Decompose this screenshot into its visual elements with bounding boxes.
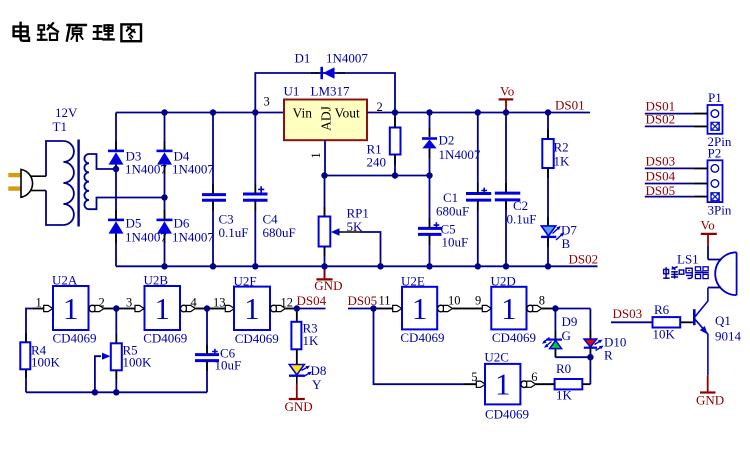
svg-text:CD4069: CD4069 bbox=[143, 331, 187, 346]
ground GND (below D8) bbox=[296, 376, 298, 384]
svg-text:8: 8 bbox=[539, 294, 545, 308]
resistor R2 bbox=[542, 113, 570, 227]
inverter U2D bbox=[482, 274, 541, 346]
wire secondary top lead bbox=[89, 154, 116, 169]
wire U2D out to LEDs bbox=[542, 308, 591, 310]
title char LU bbox=[38, 23, 58, 40]
node gate row junctions bbox=[113, 305, 119, 311]
svg-text:11: 11 bbox=[379, 294, 391, 308]
ground GND (emitter) bbox=[700, 375, 716, 392]
svg-text:B: B bbox=[562, 236, 571, 251]
title char TU bbox=[121, 24, 141, 41]
svg-text:DS01: DS01 bbox=[555, 98, 585, 113]
char MING bbox=[679, 268, 692, 278]
title char DIAN bbox=[14, 23, 29, 41]
svg-text:1K: 1K bbox=[556, 388, 573, 403]
capacitor C3 bbox=[202, 113, 248, 267]
diode D4 bbox=[157, 149, 215, 177]
svg-text:Q1: Q1 bbox=[715, 313, 731, 328]
LED D9 (green) bbox=[542, 309, 577, 358]
node LED cathode junction bbox=[587, 354, 593, 360]
svg-text:100K: 100K bbox=[123, 355, 153, 370]
svg-text:ADJ: ADJ bbox=[319, 106, 334, 131]
svg-text:12V: 12V bbox=[55, 105, 78, 120]
svg-text:D9: D9 bbox=[562, 314, 578, 329]
svg-text:D5: D5 bbox=[126, 216, 142, 231]
svg-text:1: 1 bbox=[36, 295, 42, 309]
wire oscillator bottom rail bbox=[26, 391, 207, 393]
svg-text:12: 12 bbox=[281, 295, 294, 309]
svg-text:D2: D2 bbox=[439, 133, 455, 148]
svg-text:LM317: LM317 bbox=[311, 84, 351, 99]
ground GND (below RP1) bbox=[316, 266, 332, 279]
transformer T1 bbox=[46, 140, 165, 227]
wire to P2 pin2 bbox=[645, 183, 708, 185]
svg-text:Vo: Vo bbox=[701, 218, 715, 233]
diode D6 bbox=[157, 216, 215, 245]
potentiometer RP1 bbox=[319, 176, 381, 267]
title char YUAN bbox=[67, 25, 86, 41]
svg-text:6: 6 bbox=[531, 370, 537, 384]
svg-text:1N4007: 1N4007 bbox=[172, 162, 214, 177]
svg-text:Vo: Vo bbox=[500, 84, 514, 99]
plug P (AC mains) bbox=[8, 169, 46, 197]
svg-text:10: 10 bbox=[448, 294, 461, 308]
wire secondary bottom lead bbox=[89, 198, 165, 210]
inverter U2A bbox=[44, 273, 104, 346]
capacitor C4 (polarized) bbox=[243, 113, 296, 267]
svg-text:R2: R2 bbox=[554, 140, 569, 155]
svg-text:DS03: DS03 bbox=[646, 154, 676, 169]
secondary winding bbox=[84, 154, 89, 209]
svg-text:CD4069: CD4069 bbox=[400, 330, 444, 345]
LED D10 (red) bbox=[584, 309, 627, 385]
svg-text:CD4069: CD4069 bbox=[485, 407, 529, 422]
svg-text:1K: 1K bbox=[554, 154, 571, 169]
LED D7 (blue) bbox=[541, 223, 577, 267]
svg-text:1: 1 bbox=[63, 291, 79, 326]
wire input top rail bbox=[116, 112, 284, 114]
svg-text:9: 9 bbox=[475, 294, 481, 308]
wire to P2 pin3 bbox=[645, 196, 708, 198]
label buzzer (Chinese) bbox=[663, 267, 709, 279]
svg-text:D8: D8 bbox=[311, 363, 327, 378]
svg-text:0.1uF: 0.1uF bbox=[507, 212, 537, 227]
svg-text:1N4007: 1N4007 bbox=[326, 51, 368, 66]
inverter U2B bbox=[135, 273, 195, 346]
transformer core bbox=[77, 140, 79, 227]
node bridge AC taps bbox=[113, 166, 119, 172]
wire D1 bypass branch bbox=[255, 73, 395, 113]
capacitor C5 (polarized) bbox=[418, 176, 468, 267]
inverter U2F bbox=[225, 273, 285, 346]
svg-text:CD4069: CD4069 bbox=[235, 331, 279, 346]
char QI bbox=[695, 267, 709, 279]
svg-text:3Pin: 3Pin bbox=[708, 203, 732, 218]
svg-text:3: 3 bbox=[264, 95, 270, 109]
svg-text:3: 3 bbox=[126, 295, 132, 309]
svg-text:680uF: 680uF bbox=[436, 204, 469, 219]
svg-text:9014: 9014 bbox=[715, 329, 742, 344]
wire output rail bbox=[367, 112, 590, 114]
primary winding bbox=[63, 141, 74, 225]
svg-text:P1: P1 bbox=[708, 90, 722, 105]
wire U2A input branch bbox=[26, 309, 45, 343]
wire DS05 branch down to U2C bbox=[374, 309, 478, 385]
pin stubs (black) bbox=[26, 73, 590, 379]
svg-text:680uF: 680uF bbox=[263, 225, 296, 240]
capacitor C6 (polarized) bbox=[195, 309, 241, 393]
svg-text:DS04: DS04 bbox=[297, 293, 327, 308]
wire pin1 ADJ bbox=[324, 140, 326, 175]
svg-text:100K: 100K bbox=[31, 355, 61, 370]
wire primary top lead bbox=[46, 141, 63, 176]
svg-text:1N4007: 1N4007 bbox=[439, 147, 481, 162]
diode D2 bbox=[422, 113, 481, 176]
power port Vo (buzzer supply) bbox=[701, 218, 717, 247]
svg-text:LS1: LS1 bbox=[677, 252, 699, 267]
resistor R1 bbox=[367, 113, 401, 176]
svg-text:10K: 10K bbox=[653, 327, 676, 342]
svg-text:R6: R6 bbox=[654, 302, 670, 317]
SECTION_DOTS bbox=[92, 109, 594, 395]
wire bridge right column bbox=[164, 113, 166, 267]
LED D8 (yellow) bbox=[289, 363, 326, 392]
svg-text:5K: 5K bbox=[347, 219, 364, 234]
wire DS05 to U2E bbox=[348, 308, 394, 310]
connector P1 bbox=[708, 90, 732, 149]
svg-text:U2C: U2C bbox=[484, 350, 509, 365]
diode D5 bbox=[108, 216, 167, 245]
svg-text:Vin: Vin bbox=[293, 106, 313, 121]
resistor R5 (pot) bbox=[95, 309, 152, 393]
wire LED cathodes join bbox=[555, 356, 590, 358]
svg-text:GND: GND bbox=[285, 399, 313, 414]
svg-text:2: 2 bbox=[99, 295, 105, 309]
svg-text:1: 1 bbox=[412, 291, 428, 326]
node ground rail junctions bbox=[161, 263, 167, 269]
svg-text:0.1uF: 0.1uF bbox=[219, 225, 249, 240]
resistor R4 bbox=[20, 342, 60, 392]
buzzer LS1 bbox=[677, 252, 737, 296]
wire ADJ row bbox=[325, 175, 430, 177]
svg-text:5: 5 bbox=[471, 370, 477, 384]
wire DS03 bbox=[611, 321, 653, 323]
svg-text:CD4069: CD4069 bbox=[53, 331, 97, 346]
svg-text:1: 1 bbox=[244, 291, 260, 326]
svg-text:10uF: 10uF bbox=[442, 235, 469, 250]
wire bridge left column bbox=[115, 113, 117, 267]
svg-text:R: R bbox=[604, 348, 613, 363]
svg-text:1: 1 bbox=[154, 291, 170, 326]
power port Vo (output rail) bbox=[499, 84, 515, 113]
svg-text:GND: GND bbox=[696, 393, 724, 408]
wire bottom ground rail bbox=[116, 265, 598, 267]
wire to P2 pin1 bbox=[645, 167, 708, 169]
svg-text:GND: GND bbox=[314, 278, 342, 293]
wire U2F out (DS04) bbox=[285, 308, 325, 310]
diode D3 bbox=[108, 149, 167, 177]
title char LI bbox=[94, 25, 114, 39]
resistor R3 bbox=[291, 309, 319, 365]
svg-text:1: 1 bbox=[309, 152, 323, 158]
node ADJ row junctions bbox=[321, 172, 327, 178]
svg-text:P2: P2 bbox=[708, 146, 722, 161]
inverter U2E bbox=[393, 274, 453, 346]
svg-text:DS04: DS04 bbox=[646, 169, 676, 184]
capacitor C1 (polarized) bbox=[436, 113, 491, 267]
TITLE bbox=[14, 23, 141, 41]
diode D1 bbox=[295, 51, 369, 80]
wire U2A out to U2B in bbox=[104, 308, 136, 310]
svg-text:Vout: Vout bbox=[335, 106, 361, 121]
svg-text:1N4007: 1N4007 bbox=[172, 230, 214, 245]
svg-text:10uF: 10uF bbox=[215, 358, 242, 373]
node top rail junctions bbox=[161, 109, 167, 115]
svg-text:T1: T1 bbox=[53, 119, 67, 134]
svg-text:13: 13 bbox=[213, 295, 226, 309]
inverter U2C bbox=[476, 350, 535, 422]
svg-text:1K: 1K bbox=[303, 333, 320, 348]
resistor R6 bbox=[653, 302, 693, 342]
wire to P1 pin1 bbox=[645, 113, 708, 115]
svg-text:CD4069: CD4069 bbox=[492, 330, 536, 345]
svg-text:240: 240 bbox=[367, 155, 387, 170]
svg-text:1: 1 bbox=[495, 367, 511, 402]
svg-text:1: 1 bbox=[501, 291, 517, 326]
svg-text:R0: R0 bbox=[556, 361, 571, 376]
svg-text:Y: Y bbox=[312, 377, 322, 392]
wire primary bottom lead bbox=[46, 191, 63, 226]
resistor R0 bbox=[536, 361, 591, 403]
svg-text:D1: D1 bbox=[295, 51, 311, 66]
char FENG bbox=[663, 267, 678, 279]
transistor Q1 bbox=[693, 288, 742, 376]
wire pin segments (black) bbox=[33, 309, 693, 385]
wire U2E out to U2D in bbox=[452, 308, 483, 310]
svg-text:G: G bbox=[562, 328, 571, 343]
svg-text:U1: U1 bbox=[284, 84, 300, 99]
wire to P1 pin2 bbox=[645, 125, 708, 127]
svg-text:DS03: DS03 bbox=[613, 306, 643, 321]
op-amp regulator U1 LM317 bbox=[284, 84, 368, 141]
wire U2B out to U2F in bbox=[195, 308, 226, 310]
svg-text:DS02: DS02 bbox=[569, 251, 599, 266]
svg-text:D6: D6 bbox=[174, 216, 190, 231]
wire Vo to buzzer bbox=[707, 246, 709, 260]
svg-text:4: 4 bbox=[191, 295, 198, 309]
capacitor C2 bbox=[495, 113, 537, 267]
node oscillator bottom junctions bbox=[92, 389, 98, 395]
connector P2 bbox=[708, 146, 732, 218]
